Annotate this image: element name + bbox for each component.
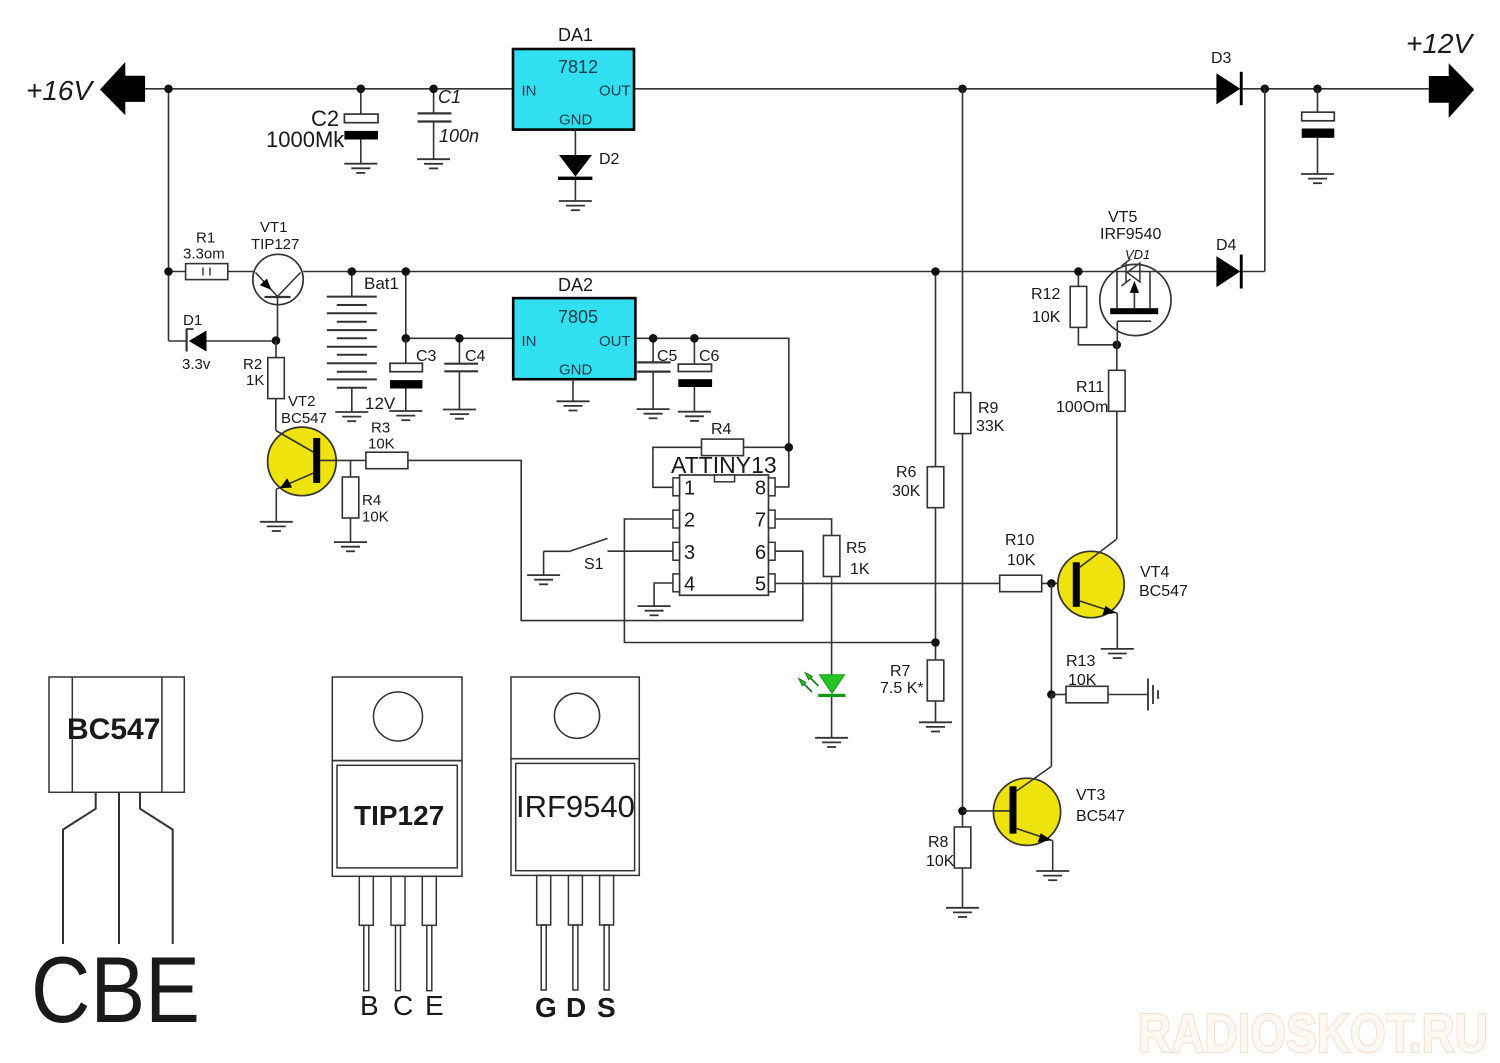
svg-text:4: 4 xyxy=(684,574,695,596)
svg-text:ATTINY13: ATTINY13 xyxy=(671,452,777,478)
resistor R3 xyxy=(366,452,408,469)
ground R8 xyxy=(946,908,979,917)
svg-text:VT3: VT3 xyxy=(1076,787,1105,804)
wire top rail left xyxy=(145,88,1216,90)
svg-text:VT4: VT4 xyxy=(1140,564,1169,581)
svg-text:GND: GND xyxy=(559,362,593,379)
node C2 tap xyxy=(357,85,366,94)
svg-text:100n: 100n xyxy=(439,126,479,146)
wire DA1 GND lead xyxy=(574,130,576,155)
capacitor C2 (polar) xyxy=(344,114,378,164)
svg-text:R1: R1 xyxy=(196,230,215,247)
svg-text:8: 8 xyxy=(755,478,766,500)
svg-text:10K: 10K xyxy=(926,853,955,870)
svg-text:D1: D1 xyxy=(183,312,202,329)
node column R6 tap xyxy=(931,267,940,276)
ground DA2 xyxy=(557,401,590,410)
resistor R7 xyxy=(927,660,944,701)
svg-text:C3: C3 xyxy=(416,348,437,365)
wire DA2 GND lead xyxy=(572,379,574,401)
svg-text:10K: 10K xyxy=(362,509,389,526)
ground C4 xyxy=(443,410,476,419)
node VT1 base / D1 / R2 xyxy=(272,336,281,345)
svg-text:VT2: VT2 xyxy=(288,393,316,410)
wire column R9 top xyxy=(962,89,964,393)
resistor R11 xyxy=(1109,345,1126,540)
svg-text:TIP127: TIP127 xyxy=(354,800,444,831)
svg-text:2: 2 xyxy=(684,510,695,532)
diode D3 xyxy=(1216,73,1240,104)
wire pin5 net xyxy=(776,582,1000,584)
node C6 tap xyxy=(690,334,699,343)
package drawing BC547 (TO-92 front) xyxy=(49,677,184,944)
svg-text:C: C xyxy=(393,990,413,1021)
node gate junction xyxy=(1113,341,1122,350)
capacitor output (polar) xyxy=(1302,112,1335,174)
svg-text:BC547: BC547 xyxy=(281,410,327,427)
wire R8 bottom lead xyxy=(962,868,964,908)
svg-text:B: B xyxy=(360,990,379,1021)
capacitor C3 (polar) xyxy=(390,338,422,411)
svg-text:R9: R9 xyxy=(978,400,999,417)
svg-text:S1: S1 xyxy=(584,556,604,573)
resistor R2 xyxy=(275,341,277,358)
svg-text:E: E xyxy=(425,990,444,1021)
svg-text:7805: 7805 xyxy=(558,307,598,327)
svg-text:D3: D3 xyxy=(1211,50,1232,67)
transistor VT2 xyxy=(268,399,337,522)
node R1 feeder junction xyxy=(164,267,173,276)
wire D4 riser xyxy=(1264,89,1266,272)
diode D1 3.3v zener xyxy=(169,329,277,352)
svg-text:3.3v: 3.3v xyxy=(182,356,211,373)
resistor R5 xyxy=(823,536,840,577)
svg-text:1000Mk: 1000Mk xyxy=(266,127,345,152)
node R13 junction xyxy=(1047,690,1056,699)
svg-text:C4: C4 xyxy=(465,348,486,365)
capacitor C4 xyxy=(444,338,478,409)
wire C1 top lead xyxy=(433,89,435,114)
battery Bat1 xyxy=(327,272,377,413)
svg-text:R8: R8 xyxy=(928,834,949,851)
resistor R1 xyxy=(169,264,254,280)
resistor R6 xyxy=(927,467,944,508)
svg-text:C5: C5 xyxy=(657,348,678,365)
ground C6 xyxy=(678,412,711,421)
resistor R10 xyxy=(1000,575,1042,592)
node output cap tap xyxy=(1313,85,1322,94)
svg-text:DA1: DA1 xyxy=(558,25,593,45)
svg-text:TIP127: TIP127 xyxy=(251,236,299,253)
svg-text:D2: D2 xyxy=(599,151,620,168)
node top rail / feeder junction xyxy=(164,85,173,94)
node C5 tap xyxy=(649,334,658,343)
wire R10 to VT4 base xyxy=(1042,582,1073,584)
svg-text:33K: 33K xyxy=(976,418,1005,435)
svg-text:R5: R5 xyxy=(846,540,867,557)
svg-text:R11: R11 xyxy=(1076,379,1104,396)
svg-text:30K: 30K xyxy=(892,483,921,500)
svg-text:BC547: BC547 xyxy=(1076,808,1125,825)
transistor VT5 IRF9540 xyxy=(1100,264,1171,344)
svg-text:R4: R4 xyxy=(711,421,732,438)
svg-text:R7: R7 xyxy=(890,663,911,680)
svg-text:5: 5 xyxy=(755,574,766,596)
node VT3 base junction xyxy=(958,807,967,816)
svg-text:IRF9540: IRF9540 xyxy=(1100,226,1161,243)
resistor R9 xyxy=(954,393,971,434)
wire C2 top lead xyxy=(360,89,362,114)
package drawing TIP127 (TO-220) xyxy=(332,677,462,991)
wire VT2 base to R3 xyxy=(320,459,366,461)
diode D2 xyxy=(558,155,592,201)
capacitor C6 (polar) xyxy=(678,338,712,411)
wire pin4 net xyxy=(654,583,673,606)
svg-text:G: G xyxy=(535,992,557,1023)
transistor VT4 xyxy=(1058,539,1124,649)
svg-text:10K: 10K xyxy=(368,436,395,453)
wire column R6 top xyxy=(935,272,937,467)
wire column R9 bottom xyxy=(962,434,964,827)
svg-text:GND: GND xyxy=(559,112,593,129)
wire third rail to DA2 IN xyxy=(406,337,513,339)
wire VT4 base drop to R13 xyxy=(1050,583,1052,694)
switch S1 xyxy=(544,538,608,575)
svg-text:100Om: 100Om xyxy=(1056,399,1108,416)
svg-text:VT1: VT1 xyxy=(260,219,288,236)
capacitor C1 xyxy=(418,113,452,121)
+16V supply arrow xyxy=(100,62,145,115)
wire top rail right of D3 xyxy=(1243,88,1429,90)
wire R7 bottom lead xyxy=(935,701,937,722)
svg-text:S: S xyxy=(597,992,616,1023)
svg-text:D4: D4 xyxy=(1216,237,1237,254)
svg-text:OUT: OUT xyxy=(599,83,631,100)
regulator DA1 7812 xyxy=(513,49,634,130)
svg-text:R2: R2 xyxy=(243,356,262,373)
wire output cap top lead xyxy=(1317,89,1319,112)
svg-text:6: 6 xyxy=(755,542,766,564)
wire D4 to riser xyxy=(1243,271,1265,273)
svg-text:10K: 10K xyxy=(1068,672,1097,689)
svg-text:Bat1: Bat1 xyxy=(364,274,399,293)
svg-text:CBE: CBE xyxy=(31,937,200,1042)
LED HL1 green xyxy=(799,673,846,738)
svg-text:IRF9540: IRF9540 xyxy=(516,789,635,824)
ground C5 xyxy=(637,409,670,418)
svg-text:10K: 10K xyxy=(1007,552,1036,569)
body diode VD1 xyxy=(1122,259,1140,286)
node rail2 drop xyxy=(402,267,411,276)
svg-text:+12V: +12V xyxy=(1406,28,1474,59)
ground R7 xyxy=(919,722,952,731)
node VT4 base / R13 xyxy=(1047,579,1056,588)
ground Bat1 xyxy=(335,412,368,421)
resistor R4 (ATTINY) xyxy=(653,439,789,487)
ground C3 xyxy=(389,411,422,420)
svg-text:IN: IN xyxy=(522,83,537,100)
svg-text:R13: R13 xyxy=(1066,653,1095,670)
svg-text:R4: R4 xyxy=(362,492,381,509)
svg-text:7: 7 xyxy=(755,510,766,532)
ground pin4 xyxy=(638,606,671,615)
wire pin7 net xyxy=(776,519,832,536)
ground VT3 emitter xyxy=(1036,871,1069,880)
node D3/D4 junction xyxy=(1261,85,1270,94)
resistor R12 xyxy=(1070,272,1117,345)
wire rail2 to rail3 drop xyxy=(405,272,407,339)
svg-text:D: D xyxy=(566,992,586,1023)
svg-text:7.5 K*: 7.5 K* xyxy=(880,680,924,697)
svg-text:VD1: VD1 xyxy=(1125,247,1150,262)
svg-text:R6: R6 xyxy=(896,464,917,481)
ground D2 xyxy=(559,201,592,210)
node R4 / OUT riser xyxy=(785,443,794,452)
transistor VT1 xyxy=(253,254,303,340)
wire DA2 OUT rail xyxy=(635,338,788,487)
capacitor C5 xyxy=(637,338,670,409)
svg-text:BC547: BC547 xyxy=(1139,583,1188,600)
ground C2 xyxy=(344,164,377,173)
svg-text:3.3om: 3.3om xyxy=(183,246,225,263)
svg-text:RADIOSKOT.RU: RADIOSKOT.RU xyxy=(1138,1002,1488,1063)
node C4 tap xyxy=(455,334,464,343)
ground LED xyxy=(815,738,848,747)
wire pin3 net xyxy=(608,550,673,552)
svg-text:BC547: BC547 xyxy=(67,713,160,746)
svg-text:7812: 7812 xyxy=(558,57,598,77)
svg-text:VT5: VT5 xyxy=(1108,209,1137,226)
ground R13 (rotated) xyxy=(1148,679,1158,711)
resistor R4 (VT2 base) xyxy=(350,460,352,477)
ground VT2 emitter xyxy=(260,522,293,531)
wire C1 bottom lead xyxy=(433,122,435,160)
node C3 tap xyxy=(402,334,411,343)
+12V supply arrow xyxy=(1429,63,1475,118)
regulator DA2 7805 xyxy=(513,298,635,379)
node R12 tap xyxy=(1074,267,1083,276)
svg-text:R10: R10 xyxy=(1005,532,1034,549)
svg-text:DA2: DA2 xyxy=(558,275,593,295)
ground R4 xyxy=(334,542,367,551)
resistor R13 xyxy=(1051,686,1148,703)
IC U1 ATTINY13 xyxy=(673,475,775,595)
svg-text:1: 1 xyxy=(684,478,695,500)
diode D4 xyxy=(1216,256,1240,287)
svg-text:IN: IN xyxy=(522,333,537,350)
svg-text:R3: R3 xyxy=(371,420,390,437)
svg-text:R12: R12 xyxy=(1031,286,1060,303)
wire R3 to pin6 loop xyxy=(408,460,803,620)
svg-text:10K: 10K xyxy=(1032,309,1061,326)
wire column R6 bottom xyxy=(935,508,937,660)
svg-text:1K: 1K xyxy=(850,561,870,578)
package drawing IRF9540 (TO-220) xyxy=(511,677,639,990)
node pin2 / R7 junction xyxy=(931,638,940,647)
wire R5 to LED xyxy=(831,577,833,675)
ground output cap xyxy=(1301,174,1334,183)
transistor VT3 xyxy=(963,695,1061,872)
svg-text:C6: C6 xyxy=(699,348,720,365)
wire +16V vertical feeder xyxy=(168,89,170,341)
wire pin2 net xyxy=(624,519,935,643)
svg-text:+16V: +16V xyxy=(26,75,94,106)
svg-text:C1: C1 xyxy=(438,87,461,107)
node top rail to R9 column xyxy=(958,85,967,94)
ground VT4 emitter xyxy=(1101,649,1134,658)
resistor R8 xyxy=(954,827,971,868)
ground S1 xyxy=(527,575,560,584)
svg-text:OUT: OUT xyxy=(599,333,631,350)
ground C1 xyxy=(417,159,450,168)
svg-text:1K: 1K xyxy=(246,372,264,389)
node C1 tap xyxy=(429,85,438,94)
wire second rail xyxy=(303,271,1216,273)
svg-text:3: 3 xyxy=(684,542,695,564)
node Bat1 tap xyxy=(348,267,357,276)
